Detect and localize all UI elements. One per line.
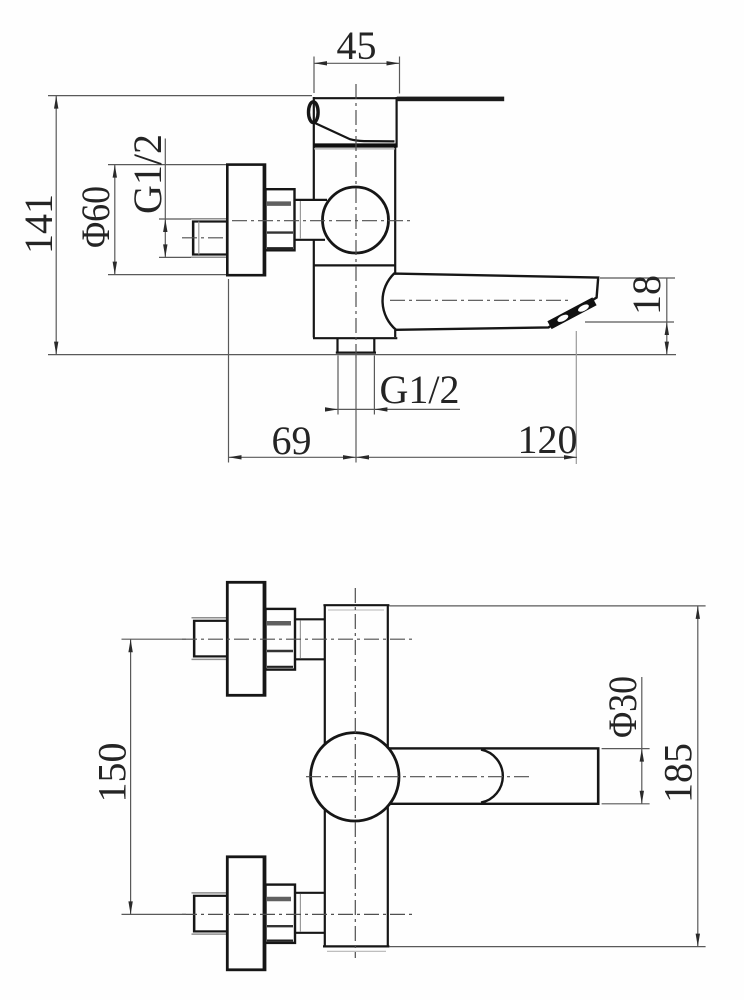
faucet body (front view): [324, 605, 326, 946]
top connector: inlet step: [295, 618, 324, 620]
dim G1/2 (wall pipe, side): [159, 218, 191, 220]
top connector: wall pipe: [194, 621, 227, 657]
svg-text:G1/2: G1/2: [380, 367, 460, 412]
svg-text:185: 185: [656, 743, 701, 803]
top connector: hex nut: [266, 609, 296, 670]
svg-text:141: 141: [16, 194, 61, 254]
dim phi60: [108, 164, 226, 166]
svg-text:150: 150: [90, 743, 135, 803]
aerator hatch at spout tip: [550, 301, 595, 325]
dim 18 (spout tip): [600, 277, 675, 279]
svg-text:18: 18: [624, 275, 669, 315]
handle pivot oval: [309, 102, 319, 123]
dim phi30: [602, 748, 650, 750]
svg-text:45: 45: [337, 23, 377, 68]
handle lever bar: [397, 97, 504, 102]
ball joint circle (side): [323, 187, 389, 253]
pipe centerline (eccentric axis): [182, 237, 234, 239]
inlet step connector (side): [295, 199, 328, 201]
bottom outlet stub: [336, 339, 338, 352]
bottom connector: flange disc: [227, 857, 265, 970]
spout centerline: [390, 299, 570, 301]
dim 150: [122, 638, 187, 640]
hex nut (side): [266, 189, 295, 250]
top connector: flange disc: [227, 582, 265, 695]
wall flange disc (side): [227, 165, 265, 276]
svg-text:Φ60: Φ60: [73, 186, 118, 248]
handle underside diagonal: [314, 123, 395, 142]
spout dome end cap: [481, 750, 503, 803]
top connector axis centerline: [182, 638, 412, 640]
body vertical centerline (front): [354, 588, 356, 958]
svg-text:120: 120: [518, 417, 578, 462]
dim 141: [48, 95, 312, 97]
dim 69 / 120: [228, 279, 230, 463]
spout axis centerline (front): [306, 776, 531, 778]
bottom connector: inlet step: [295, 892, 324, 894]
body vertical centerline: [355, 84, 357, 358]
svg-text:G1/2: G1/2: [125, 134, 170, 214]
bottom connector: wall pipe: [194, 896, 227, 932]
dim 45: [313, 57, 315, 94]
bottom connector axis centerline: [182, 913, 412, 915]
bottom connector: hex nut: [266, 885, 296, 943]
spout tube (front view): [387, 748, 598, 803]
wall pipe G1/2 (side): [193, 222, 227, 255]
spout (side view): [383, 274, 599, 330]
cartridge cap thick band: [314, 143, 398, 147]
dim G1/2 (bottom outlet): [337, 356, 339, 415]
svg-text:Φ30: Φ30: [600, 676, 645, 738]
faucet body (side view): [314, 97, 398, 99]
dim 185: [697, 606, 699, 947]
main horizontal axis centerline: [232, 220, 412, 222]
ball joint circle (front): [311, 733, 399, 821]
svg-text:69: 69: [272, 418, 312, 463]
